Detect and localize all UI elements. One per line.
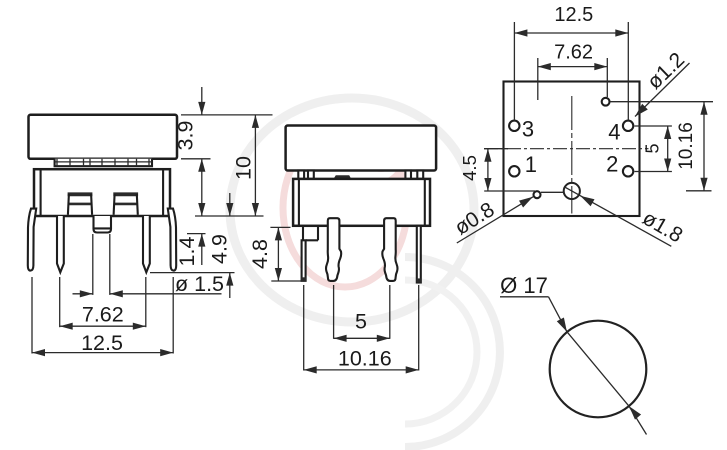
watermark red swirl curl xyxy=(350,130,404,184)
svg-text:Ø 17: Ø 17 xyxy=(500,273,548,298)
svg-text:3: 3 xyxy=(522,117,534,142)
front view left contact window xyxy=(68,192,93,196)
diameter 17 leader xyxy=(549,297,567,332)
side view left step tab xyxy=(302,226,304,241)
svg-text:ø1.2: ø1.2 xyxy=(643,48,689,94)
dimension 1.4 xyxy=(198,203,205,216)
watermark gray ring center xyxy=(230,98,474,322)
diameter 17 slash xyxy=(567,332,629,407)
svg-text:4: 4 xyxy=(608,120,620,145)
front view right contact window xyxy=(113,192,138,196)
dimension 4.5 xyxy=(487,149,489,191)
svg-text:3.9: 3.9 xyxy=(174,121,198,151)
svg-text:7.62: 7.62 xyxy=(554,42,593,64)
ext line centerline row solid stub xyxy=(484,148,508,150)
svg-text:4.9: 4.9 xyxy=(208,234,232,264)
watermark red swirl inner dot xyxy=(370,147,392,169)
svg-text:1: 1 xyxy=(525,152,537,177)
diameter 17 tail arrow xyxy=(629,406,646,434)
small index hole xyxy=(602,98,610,106)
ext line index hole row xyxy=(610,101,713,103)
dimension diameter 0.8 leader xyxy=(457,197,533,243)
svg-text:ø 1.5: ø 1.5 xyxy=(175,272,224,296)
dimension 5 side xyxy=(333,285,335,339)
center line horizontal xyxy=(484,148,649,150)
front view cap skirt band xyxy=(55,159,152,166)
side view right thin pin xyxy=(417,226,421,283)
hole 2 xyxy=(623,166,633,176)
svg-text:4.8: 4.8 xyxy=(248,239,272,269)
side view left thin pin xyxy=(302,240,306,280)
front view cap xyxy=(29,115,178,159)
svg-text:12.5: 12.5 xyxy=(81,331,123,355)
ext line row big hole left xyxy=(484,190,535,192)
big center hole xyxy=(564,183,580,199)
front view right bent pin xyxy=(168,209,176,271)
svg-text:4.5: 4.5 xyxy=(459,155,480,181)
ext line post bottom xyxy=(187,233,206,235)
dimension 10.16 top xyxy=(703,102,705,191)
dimension 10 xyxy=(254,115,256,216)
svg-text:10.16: 10.16 xyxy=(676,122,697,170)
dimension 4.8 xyxy=(270,226,290,228)
dimension 10.16 side xyxy=(303,285,305,371)
hole 1 xyxy=(509,166,519,176)
svg-text:5: 5 xyxy=(355,310,367,334)
dimension 12.5 top xyxy=(513,22,515,121)
panel hole circle xyxy=(550,321,647,418)
svg-text:5: 5 xyxy=(643,143,663,153)
hole 4 xyxy=(623,121,633,131)
svg-text:10: 10 xyxy=(232,156,256,180)
front view left bent pin xyxy=(28,209,36,271)
dimension 7.62 xyxy=(59,277,61,327)
svg-text:1.4: 1.4 xyxy=(175,237,199,267)
watermark red swirl outer xyxy=(283,129,407,287)
svg-text:10.16: 10.16 xyxy=(338,347,392,371)
diameter 17 underline xyxy=(500,296,549,298)
ext line pin tips xyxy=(150,272,235,274)
front view body xyxy=(34,169,170,216)
dimension 7.62 top xyxy=(537,58,539,100)
small left hole xyxy=(534,191,541,198)
dimension 3.9 xyxy=(201,87,203,115)
side view body xyxy=(293,179,430,226)
ext line body bottom xyxy=(195,215,264,217)
ext line cap top xyxy=(181,114,273,116)
ext line big hole row right xyxy=(686,190,712,192)
hole 3 xyxy=(509,121,519,131)
dimension diameter 1.5 leader xyxy=(92,234,94,295)
side view left bent leg xyxy=(326,218,341,281)
dimension 12.5 xyxy=(31,277,33,354)
side view top bump xyxy=(334,175,352,179)
line small hole to big hole xyxy=(541,191,564,193)
top view body square xyxy=(504,82,640,217)
side view cap xyxy=(286,126,437,171)
dimension 5 top xyxy=(635,125,672,127)
svg-text:12.5: 12.5 xyxy=(554,4,593,26)
svg-text:7.62: 7.62 xyxy=(82,303,124,327)
dimension diameter 1.2 leader xyxy=(635,63,690,117)
dimension diameter 1.8 leader xyxy=(564,187,671,247)
svg-text:2: 2 xyxy=(606,152,618,177)
front view right straight pin xyxy=(143,216,150,272)
side view cap tabs xyxy=(298,171,304,179)
dimension 4.9 xyxy=(229,193,231,216)
center line vertical xyxy=(571,96,573,214)
watermark gray arcs bottom right xyxy=(405,257,500,447)
front view left straight pin xyxy=(57,216,64,272)
front view center post xyxy=(94,216,112,233)
ext line cap bottom xyxy=(181,158,211,160)
side view right bent leg xyxy=(382,218,397,281)
